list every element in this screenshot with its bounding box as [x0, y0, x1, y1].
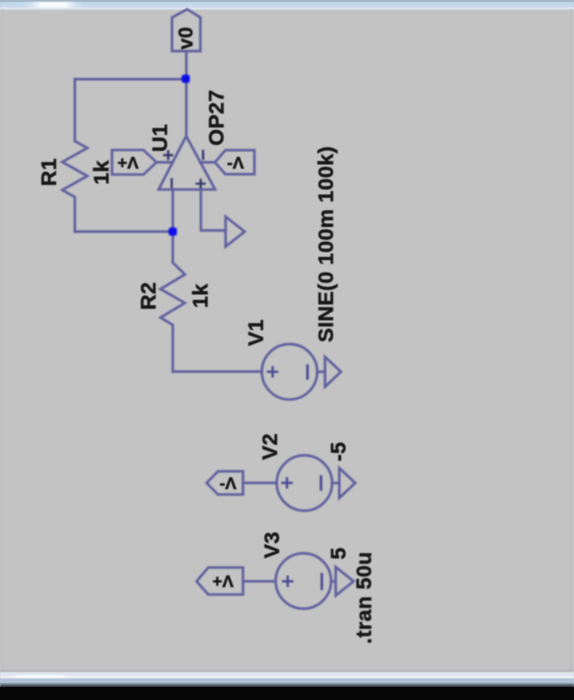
svg-text:V2: V2 — [258, 433, 282, 460]
wire R1 to bottom row — [74, 201, 77, 232]
flag -V at V2 — [207, 471, 243, 494]
bottom status strip — [0, 670, 574, 687]
wire output stem v0 to opamp — [185, 51, 188, 135]
svg-text:OP27: OP27 — [205, 90, 229, 146]
svg-text:+Λ: +Λ — [212, 572, 234, 591]
V3 minus mark — [320, 574, 323, 589]
svg-text:-Λ: -Λ — [220, 474, 238, 493]
wire V2 flag to circle — [243, 482, 277, 485]
wire V1 to ground — [317, 370, 325, 373]
svg-text:+Λ: +Λ — [117, 153, 139, 172]
left edge line — [2, 9, 3, 669]
op-amp V+ plus mark — [164, 151, 172, 159]
wire noninverting input pin — [201, 190, 226, 231]
V1 minus mark — [306, 366, 309, 379]
flag +V at V3 — [197, 568, 243, 595]
wire feedback left — [74, 79, 77, 141]
svg-text:SINE(0 100m 100k): SINE(0 100m 100k) — [314, 146, 338, 342]
svg-text:U1: U1 — [148, 124, 172, 152]
wire R2 to V1 row — [172, 330, 175, 372]
svg-text:V3: V3 — [260, 531, 284, 558]
V2 minus mark — [320, 477, 323, 490]
resistor R1 — [62, 141, 87, 201]
op-amp V- minus mark — [202, 151, 204, 159]
V1 plus mark — [268, 367, 277, 376]
junction node output — [182, 75, 190, 83]
flag -V — [215, 150, 254, 174]
voltage source V1 circle — [262, 344, 317, 399]
wire to V1 — [173, 370, 262, 373]
wire V2 to ground — [332, 482, 339, 485]
wire -V stub — [200, 161, 215, 164]
op-amp noninverting plus mark — [197, 180, 205, 188]
wire V3 flag to circle — [243, 580, 276, 583]
flag +V — [112, 150, 157, 175]
svg-text:1k: 1k — [189, 283, 213, 308]
ground V1 — [325, 357, 341, 387]
resistor R2 — [161, 263, 185, 330]
voltage source V2 circle — [277, 455, 332, 510]
wire V3 to ground — [331, 580, 336, 583]
junction node inverting — [169, 227, 177, 235]
svg-text:.tran 50u: .tran 50u — [352, 552, 376, 644]
wire feedback top — [75, 78, 186, 81]
flag v0 — [172, 9, 200, 51]
ground op-amp — [226, 217, 245, 247]
V3 plus mark — [283, 577, 292, 586]
op-amp inverting minus mark — [171, 179, 173, 187]
svg-text:V1: V1 — [244, 319, 268, 346]
svg-text:v0: v0 — [176, 27, 198, 50]
svg-text:5: 5 — [327, 547, 351, 559]
ground V3 — [336, 567, 354, 596]
svg-text:R2: R2 — [137, 282, 161, 310]
op-amp U1 triangle — [159, 136, 216, 190]
svg-text:-Λ: -Λ — [227, 153, 245, 172]
wire bottom row to junction — [75, 230, 173, 233]
wire inverting input pin — [172, 190, 175, 263]
right edge line — [570, 9, 571, 669]
svg-text:1k: 1k — [90, 160, 114, 185]
svg-text:-5: -5 — [327, 442, 351, 462]
top scrollbar strip — [0, 0, 574, 10]
voltage source V3 circle — [276, 553, 331, 608]
svg-text:R1: R1 — [37, 158, 61, 186]
V2 plus mark — [283, 478, 292, 487]
wire +V stub — [157, 161, 173, 164]
ground V2 — [339, 468, 355, 498]
